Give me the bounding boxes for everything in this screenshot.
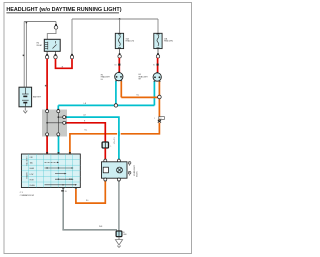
combination meter (high beam indicator) [102, 159, 138, 182]
pin top cyan [58, 152, 60, 153]
wire cyan: junction block to meter [67, 117, 119, 159]
wire cyan: junction block down to comb switch [58, 136, 60, 154]
wire: drop to fuse 1 [119, 19, 121, 33]
svg-text:LOW: LOW [30, 174, 34, 176]
wire gray: meter ground down [118, 181, 120, 231]
wire red: relay pin1 down to junction block [46, 59, 48, 110]
wire cyan: low beam horizontal [58, 104, 154, 106]
wire: battery feed double line [24, 22, 56, 88]
wire below fuse1 [119, 49, 121, 54]
connector below fuse1 [119, 53, 121, 55]
combination switch table [20, 152, 81, 197]
svg-text:E4: E4 [115, 65, 117, 67]
meter box [102, 162, 128, 178]
headlight LH H2 [101, 72, 123, 82]
svg-text:DIMMER: DIMMER [25, 172, 27, 179]
meter right edge pins and name label [128, 162, 131, 165]
pin top-right [57, 109, 59, 110]
pin top orange [69, 152, 71, 153]
wire cyan: headlight LH low pin down [115, 81, 117, 105]
pin top red [46, 152, 48, 153]
pin bottom orange [75, 188, 77, 189]
connector pair right of relay [71, 54, 73, 56]
junction block (gray) [42, 110, 67, 137]
connector below fuse2 [157, 53, 159, 55]
svg-text:C 3: C 3 [20, 192, 23, 194]
fuse HEAD (RH) [154, 33, 173, 48]
svg-text:H3: H3 [139, 74, 141, 76]
wire: drop to fuse 2 [157, 19, 159, 33]
contact dots [46, 167, 47, 168]
pin bottom-left [104, 178, 107, 181]
wire red: fuse2 to headlight RH [157, 58, 159, 73]
wire below fuse2 [157, 49, 159, 54]
svg-text:LIGHT CTRL: LIGHT CTRL [25, 157, 27, 166]
connector pair below relay pin 2 [55, 54, 57, 56]
pin bottom-right [57, 136, 59, 137]
contact arrows [57, 162, 77, 186]
svg-text:HEADLIGHT (w/o DAYTIME RUNNING: HEADLIGHT (w/o DAYTIME RUNNING LIGHT) [6, 7, 121, 13]
wire orange: down and long left run [70, 123, 159, 154]
relay pin leads [46, 51, 48, 54]
row labels [30, 157, 36, 187]
connector above relay [55, 24, 57, 26]
label W [23, 55, 25, 57]
svg-text:H2: H2 [101, 74, 103, 76]
junction dot battery line [26, 22, 28, 24]
svg-text:HEAD (RH): HEAD (RH) [164, 40, 173, 43]
ground junction connector [116, 231, 122, 237]
wire gray: comb switch ground [62, 189, 64, 230]
svg-text:IE: IE [123, 232, 125, 234]
pin right-lower [63, 121, 66, 124]
node fuse1 tap [119, 18, 121, 20]
wire orange: comb switch to meter [76, 181, 105, 203]
connector pair below relay pin 1 [46, 54, 48, 56]
contact lines [45, 162, 76, 184]
wire crossing: cyan over orange [117, 132, 121, 136]
svg-text:E5: E5 [153, 65, 155, 67]
inline connector mark [157, 64, 159, 66]
wire orange: high beam horizontal upper [121, 96, 159, 98]
wire gray: bottom horizontal [62, 229, 117, 231]
relay H4 box [44, 39, 60, 51]
pin bottom-right [117, 178, 120, 181]
junction dot A [46, 122, 48, 124]
svg-text:OFF: OFF [30, 157, 33, 159]
inline connector IH1 [102, 142, 108, 148]
page border frame [4, 3, 192, 254]
relay coil ticks [45, 41, 57, 50]
splice on cyan [114, 104, 117, 107]
wire: bracket from connector to relay top [47, 29, 56, 39]
battery [19, 87, 32, 107]
pin right-upper [63, 116, 66, 119]
wire red: junction block to connector [67, 123, 106, 142]
ground symbol [118, 237, 120, 240]
wire red: relay out U jumper [56, 59, 73, 69]
svg-text:BATTERY: BATTERY [33, 95, 42, 98]
wire: drop to relay connector [55, 22, 57, 25]
svg-text:2B: 2B [65, 191, 67, 193]
wire cyan: headlight RH low pin down [153, 82, 155, 106]
internal thin wiring [47, 112, 64, 134]
pin top-right [118, 159, 120, 160]
svg-text:H-LP RLY: H-LP RLY [112, 137, 114, 145]
svg-text:RELAY: RELAY [37, 44, 43, 47]
wire red: junction block down to comb switch [46, 136, 48, 154]
junction dot B [58, 116, 60, 118]
svg-text:R-L: R-L [85, 129, 88, 131]
svg-text:IF1: IF1 [159, 118, 161, 120]
pin bottom gray [62, 188, 64, 189]
wire tick label [45, 85, 47, 87]
fuse HEAD (LH) [115, 33, 134, 48]
inline connector mark [118, 64, 120, 66]
svg-text:METER: METER [135, 172, 137, 178]
wire orange: headlight RH high pin down through splice [158, 82, 160, 121]
svg-text:R-L: R-L [86, 200, 89, 202]
wire red: fuse1 to headlight LH [118, 58, 120, 73]
headlight RH H3 [139, 72, 162, 82]
wire: top feed to fuses [72, 18, 158, 20]
pin top-left [46, 109, 48, 110]
wire orange: headlight LH high pin down [120, 81, 122, 97]
inline connector on gray [61, 190, 64, 191]
lamp symbol [117, 167, 123, 173]
pin top-left [104, 159, 106, 160]
wire red: connector to meter [104, 148, 106, 159]
splice on orange [158, 95, 162, 99]
wire: thin drop to third connector [71, 19, 73, 54]
svg-text:HEAD (LH): HEAD (LH) [126, 40, 135, 43]
inline connector on orange [159, 117, 165, 120]
battery ground [24, 107, 26, 111]
pin bottom-left [46, 136, 48, 137]
svg-text:R-L: R-L [137, 94, 140, 96]
